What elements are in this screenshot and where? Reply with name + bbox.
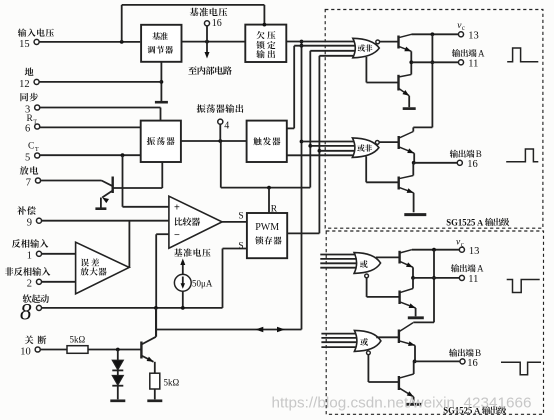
svg-text:A: A	[478, 48, 485, 58]
svg-text:T: T	[35, 146, 39, 153]
svg-text:16: 16	[212, 18, 222, 29]
svg-text:T: T	[33, 118, 37, 125]
svg-text:SG1525: SG1525	[446, 217, 475, 227]
svg-text:2: 2	[27, 279, 32, 290]
svg-text:15: 15	[19, 39, 30, 50]
svg-text:5kΩ: 5kΩ	[70, 335, 86, 345]
svg-text:4: 4	[224, 120, 229, 131]
svg-text:c: c	[462, 25, 465, 32]
svg-text:PWM: PWM	[255, 222, 279, 233]
svg-text:1: 1	[27, 251, 32, 262]
svg-text:5kΩ: 5kΩ	[164, 378, 180, 388]
svg-text:9: 9	[27, 218, 32, 229]
svg-text:6: 6	[25, 123, 30, 134]
svg-text:A: A	[477, 264, 484, 274]
svg-text:8: 8	[20, 300, 32, 325]
svg-text:50μA: 50μA	[192, 278, 213, 288]
svg-text:13: 13	[468, 31, 479, 42]
svg-text:5: 5	[25, 152, 30, 163]
svg-text:https://blog.csdn.net/weixin_4: https://blog.csdn.net/weixin_42341666	[272, 396, 532, 412]
svg-text:+: +	[174, 203, 180, 214]
svg-text:C: C	[28, 142, 34, 152]
svg-text:S: S	[238, 242, 243, 252]
svg-text:16: 16	[467, 358, 478, 369]
svg-text:R: R	[271, 205, 278, 215]
svg-text:11: 11	[468, 58, 478, 69]
svg-text:c: c	[461, 241, 464, 248]
svg-text:A: A	[477, 217, 484, 227]
svg-text:B: B	[476, 149, 482, 159]
svg-text:S: S	[238, 212, 243, 222]
svg-text:11: 11	[468, 274, 478, 285]
svg-text:13: 13	[469, 246, 480, 257]
svg-text:10: 10	[20, 346, 31, 357]
svg-text:16: 16	[467, 159, 478, 170]
svg-text:12: 12	[19, 79, 30, 90]
svg-text:7: 7	[26, 177, 31, 188]
svg-text:−: −	[174, 230, 180, 241]
svg-text:B: B	[475, 348, 481, 358]
